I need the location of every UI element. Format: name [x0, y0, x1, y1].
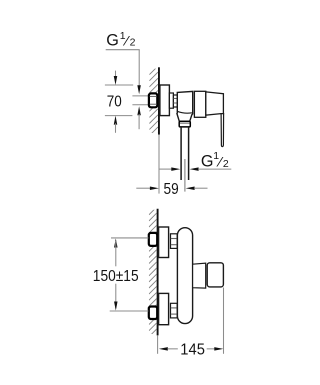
bottom union connector (bottom view): [171, 303, 178, 318]
cartridge cap (top view): [194, 91, 205, 117]
label G 1/2 right: [201, 150, 229, 170]
dimension 150±15 line and arrows: [114, 239, 118, 311]
shower hose nut (top view): [179, 121, 190, 127]
svg-text:150±15: 150±15: [93, 268, 139, 285]
top union connector (bottom view): [171, 234, 178, 249]
pipe centre extension line: [184, 159, 186, 192]
dimension 145 line and arrows: [159, 347, 224, 351]
svg-text:59: 59: [164, 181, 179, 198]
svg-text:G: G: [106, 31, 119, 49]
shower hose pipe (top view): [181, 127, 189, 180]
dimension 59: [136, 181, 207, 198]
leader arrow down to thread top: [137, 85, 141, 94]
svg-text:1: 1: [213, 150, 219, 162]
dimension 70 extension lines: [105, 85, 133, 116]
dimension 150±15 extension lines: [110, 238, 149, 311]
svg-text:70: 70: [107, 94, 122, 111]
leader line of top G 1/2 label: [106, 50, 140, 87]
svg-text:2: 2: [130, 37, 136, 49]
mixer body capsule (bottom view): [177, 228, 192, 324]
leader arrow up to thread bottom, with tail: [137, 106, 141, 129]
right G 1/2 dimension arrows at pipe: [159, 167, 231, 171]
bottom escutcheon (bottom view): [159, 293, 169, 324]
dimension 70 arrows and tails: [114, 71, 118, 133]
wall hatching (top view): [149, 66, 158, 142]
top escutcheon (bottom view): [159, 227, 169, 258]
label G 1/2 top-left: [106, 30, 135, 50]
escutcheon on wall (top view): [160, 85, 170, 116]
union connector nut (top view): [169, 93, 177, 108]
thread extension lines (G1/2 wall connection): [132, 96, 149, 105]
wall (top view): [158, 67, 160, 193]
mixer body (top view): [177, 91, 193, 121]
svg-text:145: 145: [180, 341, 205, 358]
wall (bottom view): [157, 209, 159, 354]
lever handle (top view): [221, 114, 224, 147]
union nut behind wall (top view): [149, 93, 157, 107]
lever cap (top view): [206, 92, 224, 115]
dimension 145 extension line right: [223, 288, 225, 354]
bottom union nut behind wall (bottom view): [149, 307, 157, 320]
wall hatching (bottom view): [149, 207, 157, 343]
svg-text:G: G: [201, 152, 214, 170]
top union nut behind wall (bottom view): [149, 233, 157, 246]
handle neck (bottom view): [193, 263, 206, 288]
handle knob (bottom view): [207, 263, 223, 287]
svg-text:2: 2: [223, 158, 229, 170]
